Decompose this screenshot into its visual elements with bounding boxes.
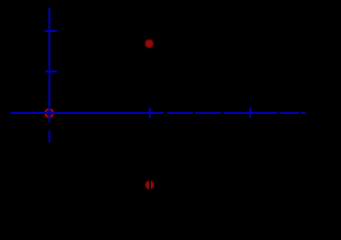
x-axis dash 4: [251, 112, 277, 114]
x-axis dash 2: [195, 112, 221, 114]
x-axis dash 3: [224, 112, 249, 114]
origin marker: red open circle at O: [45, 109, 53, 117]
point P2 (lower red dot): [144, 180, 155, 191]
x-axis dash 6: [301, 112, 306, 114]
y-axis tick at y=2: [45, 30, 57, 32]
y-axis solid segment: [48, 8, 50, 123]
x-axis tick at x=2: [249, 108, 251, 118]
point P1 (upper red dot): [144, 38, 155, 49]
black vertical slot through P2: [149, 179, 150, 191]
x-axis solid segment: [10, 112, 164, 114]
x-axis dash 1: [167, 112, 193, 114]
y-axis tick at y=1: [45, 71, 57, 73]
x-axis dash 5: [280, 112, 299, 114]
x-axis tick at x=1: [149, 108, 151, 118]
y-axis dashed segment below origin: [48, 131, 50, 143]
